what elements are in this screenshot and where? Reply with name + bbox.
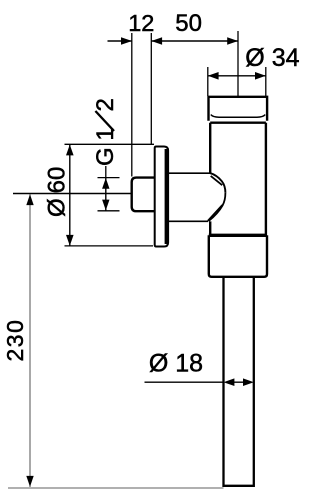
elbow lower chamfer inner line xyxy=(208,205,222,221)
svg-text:230: 230 xyxy=(2,319,28,362)
inlet centerline xyxy=(13,193,132,195)
dimension G1/2 bottom tick xyxy=(98,210,120,212)
dimension Ø34 line xyxy=(208,75,266,77)
dimension 230 top arrow xyxy=(26,194,33,205)
flush pipe xyxy=(224,277,254,486)
label Ø60 rotated xyxy=(43,167,70,217)
dimension Ø60 top extension line xyxy=(65,143,155,145)
dimension G1/2 up arrow xyxy=(102,178,109,189)
dimension Ø60 top arrow xyxy=(66,145,74,156)
svg-text:G 1: G 1 xyxy=(92,127,119,166)
dimension 230 line xyxy=(29,194,31,487)
svg-text:12: 12 xyxy=(128,10,154,36)
valve body xyxy=(210,123,266,235)
valve cap xyxy=(209,97,268,121)
dimension 12 leader line xyxy=(108,40,132,42)
label 230 rotated xyxy=(2,319,28,362)
dimension Ø34 left extension line xyxy=(207,67,209,96)
dimension 50 line xyxy=(151,40,238,42)
elbow top line xyxy=(168,172,210,174)
flange thick right edge xyxy=(165,149,168,244)
wall flange xyxy=(155,147,168,247)
dimension 12 right extension line xyxy=(150,33,152,144)
pipe bottom edge xyxy=(224,485,254,487)
label G1/2 rotated xyxy=(92,98,119,166)
svg-text:Ø 34: Ø 34 xyxy=(245,44,299,72)
svg-text:Ø60: Ø60 xyxy=(43,167,70,217)
dimension Ø18 left arrow xyxy=(224,378,235,386)
elbow upper chamfer inner line xyxy=(211,176,223,185)
lower body xyxy=(209,235,267,276)
elbow dome upper silhouette xyxy=(209,173,225,193)
dimension Ø18 leader line xyxy=(145,381,224,383)
dimension Ø60 bottom arrow xyxy=(66,235,74,246)
elbow dome lower silhouette xyxy=(209,193,226,221)
dimension 50 right arrow xyxy=(227,37,238,45)
dimension Ø60 bottom extension line xyxy=(65,245,154,247)
svg-text:Ø 18: Ø 18 xyxy=(149,350,203,378)
body joint thick line xyxy=(209,234,267,237)
body centerline xyxy=(237,31,239,97)
dimension 12 left arrow xyxy=(121,37,132,45)
svg-text:50: 50 xyxy=(175,10,202,37)
dimension G1/2 top tick xyxy=(98,177,120,179)
inlet port G1/2 xyxy=(132,178,155,212)
dimension Ø34 left arrow xyxy=(208,72,219,80)
dimension Ø34 right extension line xyxy=(265,67,267,96)
dimension G1/2 line xyxy=(105,178,107,211)
elbow bottom line xyxy=(168,220,208,222)
dimension Ø18 right arrow xyxy=(243,378,254,386)
dimension Ø34 right arrow xyxy=(255,72,266,80)
dimension 230 bottom extension line xyxy=(8,487,224,489)
svg-text:2: 2 xyxy=(92,98,119,111)
cap groove line xyxy=(211,115,265,118)
dimension 12 right arrow / dimension 50 left arrow xyxy=(151,37,162,45)
dimension G1/2 leader from label xyxy=(105,166,107,178)
dimension 230 bottom arrow xyxy=(26,476,33,487)
dimension 12 left extension line xyxy=(131,33,133,177)
dimension G1/2 down arrow xyxy=(102,200,109,211)
dimension Ø60 line xyxy=(69,145,71,246)
dimension Ø18 bar xyxy=(230,381,247,383)
